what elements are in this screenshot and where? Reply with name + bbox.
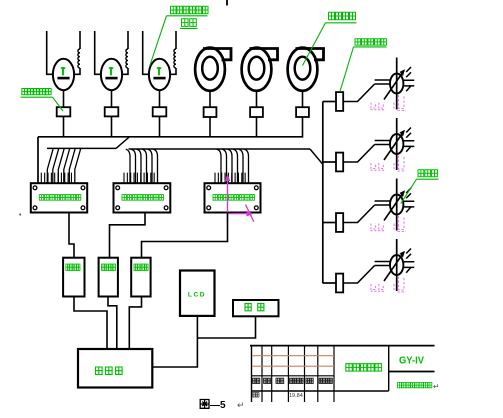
valve V4 stem wire bbox=[396, 239, 398, 291]
computer box bbox=[78, 349, 152, 388]
board U1 input wire 4 bbox=[64, 149, 70, 183]
board U1 input wire 3 bbox=[58, 149, 64, 183]
wire relay K2 to bus bbox=[111, 116, 113, 137]
relay contact K6 bbox=[296, 107, 309, 117]
fan B2 volute scroll bbox=[250, 49, 278, 60]
wire motor M1 to relay bbox=[63, 90, 65, 107]
label exhaust fan text bbox=[329, 12, 335, 20]
regulator VR1 body bbox=[63, 258, 84, 297]
relay board U1 mounting hole bbox=[81, 206, 85, 210]
title block row line bbox=[252, 375, 335, 377]
valve V2 arrow diagonal bbox=[384, 131, 404, 160]
relay board U2 mounting hole bbox=[164, 186, 168, 190]
board U3 pin 8 bbox=[237, 173, 239, 184]
board U2 input wire 2 bbox=[131, 149, 135, 183]
title block column line x=334 bbox=[333, 346, 335, 402]
title cell text 6 bbox=[319, 378, 322, 383]
board U3 input wire 1 bbox=[217, 149, 221, 183]
valve V1 body bbox=[390, 74, 403, 94]
title cell text 4 bbox=[290, 378, 293, 383]
wire fan B2 to relay bbox=[256, 90, 258, 107]
wire board U2 to regulator2 bbox=[110, 213, 146, 258]
valve V3 arrowhead bbox=[400, 190, 405, 197]
title block column line x=262 bbox=[261, 346, 263, 402]
relay board U2 mounting hole bbox=[164, 206, 168, 210]
relay board U1 label bbox=[39, 195, 43, 201]
label oil pump text bbox=[418, 170, 424, 177]
relay contact K5 bbox=[250, 107, 263, 117]
relay output bus bbox=[38, 136, 303, 138]
wire bus down to board1 bbox=[37, 137, 39, 183]
board U1 pin 4 bbox=[50, 173, 52, 184]
valve V2 slash 3 bbox=[406, 146, 411, 152]
valve V2 double line bbox=[375, 141, 390, 145]
subtitle text bbox=[398, 382, 402, 387]
phantom text row 2 left bbox=[371, 163, 386, 170]
wire board U1 to regulator1 bbox=[69, 213, 74, 258]
board U2 pin 4 bbox=[133, 173, 135, 184]
wire relay KA1 to valve bbox=[343, 84, 374, 102]
title cell text 3 bbox=[276, 378, 279, 383]
below-row mark 1 bbox=[252, 393, 255, 397]
magenta cursor slash bbox=[246, 205, 254, 222]
relay contact KA3 bbox=[336, 213, 343, 232]
board U3 pin 9 bbox=[241, 173, 243, 184]
LCD box bbox=[180, 271, 215, 316]
wire diagonal feed to bus bbox=[116, 137, 129, 148]
svg-text:GY-IV: GY-IV bbox=[399, 354, 424, 366]
valve V4 double line bbox=[375, 262, 390, 266]
valve V3 stem wire bbox=[396, 179, 398, 231]
wire board U3 to regulator3 bbox=[142, 213, 228, 258]
board U3 pin 4 bbox=[224, 173, 226, 184]
board U3 input wire 5 bbox=[239, 149, 243, 183]
winding coil of motor M3 bbox=[174, 49, 176, 68]
board U1 input wire 1 bbox=[47, 149, 53, 183]
board U1 input wire 2 bbox=[53, 149, 59, 183]
motor M3 green glyph bbox=[157, 67, 161, 75]
title block GY bottom line bbox=[389, 371, 435, 373]
board U2 pin 8 bbox=[146, 173, 148, 184]
label exhaust fan underline bbox=[326, 22, 357, 24]
wire bus branch row 4 bbox=[323, 282, 336, 284]
phantom text row 2 right bbox=[394, 156, 406, 172]
board U1 pin 7 bbox=[60, 173, 62, 184]
title block orange line 1 bbox=[252, 355, 334, 357]
svg-text:↵: ↵ bbox=[237, 400, 245, 410]
valve V2 slash 1 bbox=[406, 128, 411, 133]
figure caption glyph bbox=[200, 400, 209, 409]
wire relay KA4 to valve bbox=[343, 266, 374, 284]
board U3 input wire 4 bbox=[233, 149, 237, 183]
relay contact KA4 bbox=[336, 274, 343, 293]
winding coil of motor M1 bbox=[78, 49, 80, 68]
motor M1 body bbox=[53, 59, 74, 90]
phantom text row 3 right bbox=[394, 216, 406, 232]
relay board U3 mounting hole bbox=[207, 206, 211, 210]
relay board U3 label bbox=[213, 195, 217, 201]
fan B3 outer body bbox=[288, 48, 318, 91]
relay board U3 mounting hole bbox=[207, 186, 211, 190]
phantom text row 1 right bbox=[394, 95, 406, 111]
board U1 input wire 6 bbox=[75, 149, 81, 183]
board U3 input wire 3 bbox=[228, 149, 232, 183]
valve V1 arrow diagonal bbox=[384, 71, 404, 100]
title block left border bbox=[251, 346, 253, 402]
relay board U2 mounting hole bbox=[116, 206, 120, 210]
label transformer motor line2 bbox=[182, 19, 189, 27]
label intermediate relay (left) leader bbox=[53, 97, 64, 111]
title block orange line 2 bbox=[252, 365, 334, 367]
relay board U1 mounting hole bbox=[33, 186, 37, 190]
relay contact K2 bbox=[105, 107, 119, 116]
svg-text:—5: —5 bbox=[210, 400, 226, 411]
drawing name text bbox=[346, 364, 352, 371]
valve V4 body bbox=[390, 255, 403, 275]
relay board U2 label bbox=[122, 195, 126, 201]
wire feed right motor M2 (upper) bbox=[127, 31, 129, 49]
wire feed right motor M1 (upper) bbox=[79, 31, 81, 49]
title block divider main bbox=[388, 346, 390, 391]
wire coil to motor M2 bbox=[122, 68, 128, 74]
label exhaust fan leader bbox=[303, 23, 326, 66]
board U1 pin 5 bbox=[54, 173, 56, 184]
valve V1 arrowhead bbox=[400, 69, 405, 76]
motor M2 body bbox=[101, 59, 122, 90]
wire relay K1 to bus bbox=[63, 116, 65, 137]
valve V4 arrowhead bbox=[400, 251, 405, 258]
valve V4 slash 2 bbox=[406, 254, 411, 259]
wire motor M2 to relay bbox=[111, 90, 113, 107]
valve V3 arrow diagonal bbox=[384, 192, 404, 221]
fan B1 inner hub bbox=[202, 57, 218, 80]
wire regulator VR2 to computer bbox=[108, 297, 117, 350]
magenta cursor arrowhead up bbox=[225, 174, 231, 181]
label intermediate relay (left) underline bbox=[21, 96, 53, 98]
label oil pump leader bbox=[401, 179, 417, 203]
title cell text 1 bbox=[253, 378, 256, 383]
wire coil to motor M3 bbox=[170, 68, 176, 74]
label transformer motor underline1 bbox=[167, 15, 208, 17]
title block column line x=288.4 bbox=[287, 346, 289, 402]
computer label bbox=[96, 367, 103, 374]
board U1 pin 3 bbox=[47, 173, 49, 184]
board U2 input wire 3 bbox=[137, 149, 141, 183]
board U2 input wire 5 bbox=[148, 149, 152, 183]
board U2 pin 2 bbox=[126, 173, 128, 184]
board U2 pin 6 bbox=[140, 173, 142, 184]
valve V3 slash 3 bbox=[406, 207, 411, 213]
svg-text:LCD: LCD bbox=[188, 292, 206, 299]
valve V1 double line bbox=[375, 80, 390, 84]
title cell text 2 bbox=[264, 378, 267, 383]
wire fan B1 to relay bbox=[209, 90, 211, 107]
board U3 pin 5 bbox=[227, 173, 229, 184]
valve V2 arrowhead bbox=[400, 130, 405, 137]
valve V1 slash 1 bbox=[406, 67, 411, 72]
title block column line x=317.8 bbox=[317, 346, 319, 402]
label transformer motor line1 bbox=[171, 6, 177, 14]
motor M3 terminal bar bbox=[153, 77, 165, 80]
label intermediate relay (right) underline bbox=[354, 46, 387, 48]
board U3 pin 10 bbox=[244, 173, 246, 184]
board U2 pin 1 bbox=[123, 173, 125, 184]
board U1 input wire 5 bbox=[69, 149, 75, 183]
winding coil of motor M2 bbox=[126, 49, 128, 68]
label oil pump underline bbox=[417, 178, 439, 180]
relay board U1 outline bbox=[31, 183, 87, 212]
fan B3 inner hub bbox=[295, 57, 311, 80]
relay contact K1 bbox=[57, 107, 71, 116]
valve V2 body bbox=[390, 134, 403, 154]
valve V4 right lines bbox=[404, 262, 414, 268]
title block bottom line bbox=[252, 390, 389, 392]
magenta cursor horizontal arrow bbox=[229, 213, 251, 215]
label intermediate relay (right) text bbox=[355, 39, 361, 45]
wire bus branch row 1 bbox=[323, 101, 336, 103]
fan B1 volute scroll bbox=[203, 49, 231, 60]
board U2 pin 5 bbox=[136, 173, 138, 184]
valve V3 slash 2 bbox=[406, 193, 411, 198]
label transformer motor leader bbox=[150, 16, 167, 67]
board U3 pin 3 bbox=[221, 173, 223, 184]
magenta cursor vertical arrow bbox=[227, 178, 229, 222]
phantom text row 3 left bbox=[371, 224, 386, 231]
valve V1 slash 3 bbox=[406, 86, 411, 92]
relay board U1 mounting hole bbox=[33, 206, 37, 210]
valve V3 body bbox=[390, 195, 403, 215]
wire relay K6 to bus bbox=[302, 117, 304, 138]
wire relay K5 to bus bbox=[256, 117, 258, 138]
wire fan B3 to relay bbox=[302, 90, 304, 107]
regulator VR3 label bbox=[134, 264, 137, 270]
title block column line x=271.7 bbox=[271, 346, 273, 402]
board U1 pin 9 bbox=[67, 173, 69, 184]
title block column line x=304.5 bbox=[304, 346, 306, 402]
relay board U3 mounting hole bbox=[254, 186, 258, 190]
wire LCD to computer bbox=[152, 316, 197, 367]
regulator VR2 label bbox=[101, 264, 104, 270]
relay contact KA1 bbox=[336, 92, 343, 111]
power supply label bbox=[245, 304, 251, 311]
wire coil to motor M1 bbox=[74, 68, 80, 74]
signal feed line right segment bbox=[129, 148, 311, 150]
valve V1 slash 2 bbox=[406, 72, 411, 77]
fan B1 outer body bbox=[195, 48, 225, 91]
board U2 pin 7 bbox=[143, 173, 145, 184]
motor M1 terminal bar bbox=[57, 77, 69, 80]
phantom text row 4 right bbox=[394, 277, 406, 293]
motor M3 body bbox=[149, 59, 170, 90]
power supply box bbox=[233, 300, 279, 316]
board U2 input wire 1 bbox=[126, 149, 130, 183]
valve V1 stem wire bbox=[396, 58, 398, 110]
magenta cursor arrowhead right bbox=[247, 211, 254, 217]
relay board U3 outline bbox=[205, 183, 261, 212]
fan B2 inner hub bbox=[249, 57, 265, 80]
wire relay KA3 to valve bbox=[343, 205, 374, 223]
motor M2 green glyph bbox=[109, 67, 113, 75]
label intermediate relay (right) leader bbox=[340, 47, 354, 92]
phantom text row 1 left bbox=[371, 103, 386, 110]
label transformer motor underline2 bbox=[180, 27, 198, 29]
valve V4 slash 3 bbox=[406, 267, 411, 273]
board U2 pin 3 bbox=[130, 173, 132, 184]
stray dot bbox=[19, 214, 21, 216]
relay board U2 mounting hole bbox=[116, 186, 120, 190]
wire regulator VR1 to computer bbox=[74, 297, 107, 350]
label intermediate relay (left) text bbox=[22, 89, 27, 95]
board U2 input wire 6 bbox=[153, 149, 157, 183]
phantom text row 4 left bbox=[371, 284, 386, 291]
regulator VR1 label bbox=[66, 264, 69, 270]
right distribution bus bbox=[322, 102, 324, 284]
wire bus branch row 2 bbox=[323, 161, 336, 163]
board U1 pin 10 bbox=[70, 173, 72, 184]
valve V3 right lines bbox=[404, 201, 414, 207]
relay contact KA2 bbox=[336, 153, 343, 172]
motor M2 terminal bar bbox=[105, 77, 117, 80]
board U3 input wire 6 bbox=[244, 149, 248, 183]
valve V4 arrow diagonal bbox=[384, 252, 404, 281]
wire motor M3 to relay bbox=[159, 90, 161, 107]
wire diagonal feed to right bus bbox=[310, 149, 323, 164]
board U2 pin 9 bbox=[150, 173, 152, 184]
valve V3 double line bbox=[375, 201, 390, 205]
regulator VR3 body bbox=[131, 258, 150, 297]
regulator VR2 body bbox=[99, 258, 118, 297]
relay board U3 mounting hole bbox=[254, 206, 258, 210]
wire feed left motor M3 bbox=[143, 31, 150, 74]
valve V1 right lines bbox=[404, 80, 414, 86]
svg-text:↵: ↵ bbox=[433, 382, 439, 391]
stray tick mark top center bbox=[226, 0, 228, 6]
wire regulator VR3 to computer bbox=[129, 297, 141, 350]
board U3 input wire 2 bbox=[222, 149, 226, 183]
board U3 pin 6 bbox=[231, 173, 233, 184]
board U3 pin 2 bbox=[217, 173, 219, 184]
board U2 pin 10 bbox=[153, 173, 155, 184]
relay contact K3 bbox=[153, 107, 167, 116]
motor M1 green glyph bbox=[61, 67, 65, 75]
board U3 pin 7 bbox=[234, 173, 236, 184]
valve V3 slash 1 bbox=[406, 188, 411, 193]
wire relay K4 to bus bbox=[209, 117, 211, 138]
title block top line bbox=[250, 345, 435, 347]
board U1 pin 2 bbox=[44, 173, 46, 184]
wire relay KA2 to valve bbox=[343, 145, 374, 163]
fan B3 volute scroll bbox=[296, 49, 324, 60]
relay contact K4 bbox=[204, 107, 217, 117]
board U2 input wire 4 bbox=[142, 149, 146, 183]
board U1 pin 6 bbox=[57, 173, 59, 184]
board U3 pin 1 bbox=[214, 173, 216, 184]
valve V2 right lines bbox=[404, 141, 414, 147]
wire power to LCD node bbox=[197, 316, 255, 338]
wire relay K3 to bus bbox=[159, 116, 161, 137]
valve V2 stem wire bbox=[396, 118, 398, 170]
board U1 pin 1 bbox=[40, 173, 42, 184]
valve V2 slash 2 bbox=[406, 133, 411, 138]
wire feed right motor M3 (upper) bbox=[175, 31, 177, 49]
relay board U1 mounting hole bbox=[81, 186, 85, 190]
signal feed line left segment bbox=[47, 147, 116, 149]
valve V4 slash 1 bbox=[406, 249, 411, 254]
wire feed left motor M1 bbox=[47, 31, 54, 74]
fan B2 outer body bbox=[242, 48, 272, 91]
wire bus branch row 3 bbox=[323, 222, 336, 224]
wire feed left motor M2 bbox=[95, 31, 102, 74]
svg-text:19.84: 19.84 bbox=[289, 393, 303, 399]
board U1 pin 8 bbox=[64, 173, 66, 184]
relay board U2 outline bbox=[114, 183, 171, 212]
title cell text 5 bbox=[306, 378, 309, 383]
